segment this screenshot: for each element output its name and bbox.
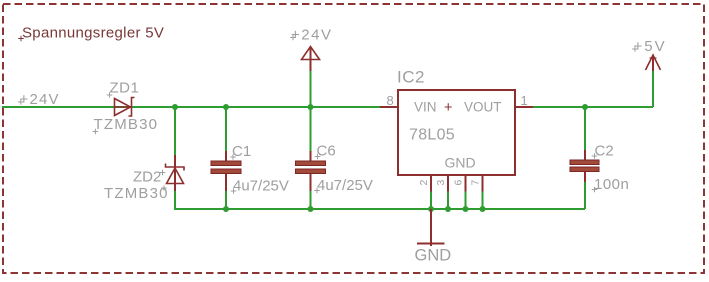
svg-text:2: 2: [418, 180, 430, 186]
svg-text:VIN: VIN: [414, 100, 437, 115]
svg-text:3: 3: [435, 180, 447, 186]
svg-text:8: 8: [387, 93, 394, 108]
svg-text:+: +: [444, 100, 452, 116]
svg-text:TZMB30: TZMB30: [94, 116, 159, 133]
svg-text:6: 6: [453, 180, 465, 186]
svg-text:Spannungsregler 5V: Spannungsregler 5V: [22, 25, 164, 42]
svg-text:+24V: +24V: [20, 91, 60, 108]
svg-text:TZMB30: TZMB30: [104, 185, 169, 202]
svg-text:4u7/25V: 4u7/25V: [233, 178, 289, 195]
svg-text:ZD1: ZD1: [110, 80, 140, 97]
svg-text:GND: GND: [445, 155, 476, 171]
svg-text:78L05: 78L05: [409, 127, 455, 144]
svg-text:100n: 100n: [594, 176, 629, 193]
svg-text:7: 7: [470, 180, 482, 186]
svg-text:ZD2: ZD2: [133, 169, 161, 186]
svg-text:IC2: IC2: [397, 68, 425, 87]
svg-text:+5V: +5V: [634, 38, 667, 55]
svg-text:C2: C2: [595, 143, 614, 160]
svg-text:GND: GND: [415, 247, 452, 265]
svg-text:1: 1: [521, 93, 528, 108]
svg-text:VOUT: VOUT: [464, 100, 502, 115]
svg-text:4u7/25V: 4u7/25V: [317, 177, 373, 194]
svg-text:+24V: +24V: [291, 27, 332, 44]
